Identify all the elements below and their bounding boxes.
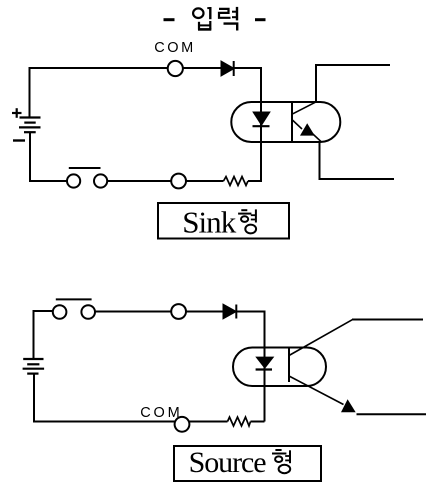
wire battery to bottom [29,132,31,181]
wire collector horizontal out (bottom) [352,319,423,321]
pushbutton switch S1 [67,168,107,188]
phototransistor of U2 [289,320,356,413]
svg-text:COM: COM [154,40,193,56]
wire resistor to LED [251,421,265,423]
wire bottom-left horizontal [29,180,67,182]
optocoupler U2 capsule [233,348,326,387]
svg-text:Sink: Sink [182,205,237,240]
phototransistor of U1 [292,102,321,142]
wire top-left horizontal (bottom circuit) [33,310,54,312]
wire terminal to resistor [186,180,224,182]
wire COM to diode [183,67,222,69]
wire switch to terminal [95,311,171,313]
label box Source형 [174,446,321,481]
terminal T1 [171,174,186,189]
hyphen right [255,18,266,21]
wire emitter horizontal out [319,178,395,180]
wire left vertical to battery B2 [33,310,35,359]
diode D1 [222,61,234,76]
wire diode to corner [236,311,265,313]
diode D2 [224,305,237,319]
plus label [12,108,22,118]
minus label [13,139,25,141]
optocoupler U1 capsule [231,102,340,142]
wire diode to corner [234,67,262,69]
title 입력 (Korean "Input") with hyphens [164,7,266,31]
wire left vertical to battery [29,67,31,118]
wire LED anode vertical (bottom) [264,311,266,422]
terminal T2 [171,304,186,319]
LED of U2 [256,358,273,370]
wire switch to terminal [107,180,171,182]
wire LED anode vertical [260,67,262,181]
wire top-left horizontal [29,67,168,69]
wire bottom horizontal [33,421,175,423]
battery B1 [19,118,41,133]
wire COM to resistor [189,421,227,423]
battery B2 [23,359,44,374]
glyph 형 (Sink) [238,209,256,233]
wire collector out [315,65,317,102]
terminal COM bottom [175,417,190,432]
svg-text:Source: Source [189,446,267,479]
glyph 력 [219,7,237,31]
glyph 형 (Source) [272,450,290,473]
LED of U1 [253,113,270,127]
wire battery to bottom [33,374,35,422]
wire emitter horizontal out (bottom) [357,413,427,415]
pushbutton switch S2 [53,299,95,318]
glyph 입 [193,7,211,30]
terminal COM top [168,61,183,76]
resistor R2 [228,417,251,426]
svg-text:COM: COM [140,405,180,421]
resistor R1 [224,177,249,186]
wire terminal to diode [186,311,224,313]
hyphen left [164,18,175,21]
label box Sink형 [158,203,289,239]
wire collector horizontal out [315,64,390,66]
wire resistor to LED cathode [248,180,262,182]
wire emitter out [319,142,321,179]
